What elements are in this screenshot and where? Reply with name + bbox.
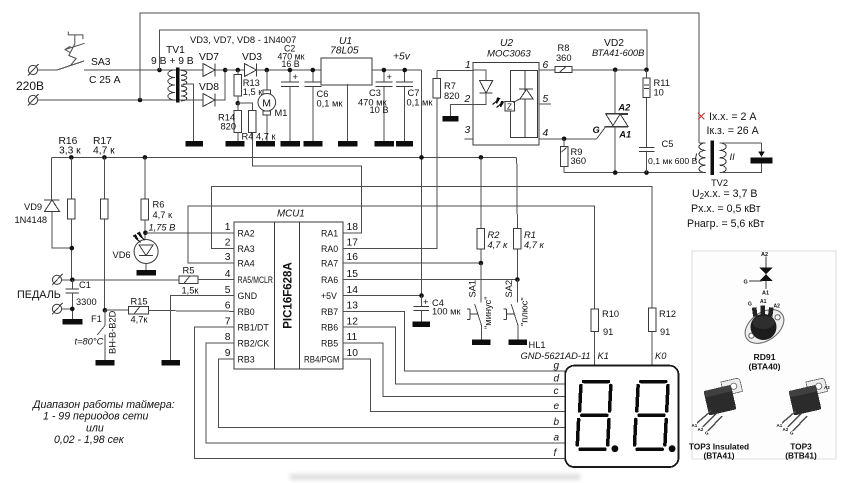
svg-text:4,7 к: 4,7 к — [93, 146, 115, 157]
MCU U3 box — [234, 222, 343, 369]
svg-text:14: 14 — [347, 285, 359, 296]
pin 4 RA5 — [225, 269, 273, 285]
ground SA2 — [509, 340, 528, 346]
svg-text:4,7 к: 4,7 к — [524, 240, 545, 250]
ground C3 — [375, 141, 395, 147]
mains terminal X1 top — [28, 64, 57, 76]
resistor R9 — [560, 139, 567, 173]
svg-text:"плюс": "плюс" — [520, 297, 530, 326]
node rail R2 — [479, 155, 484, 160]
pin 5 GND — [225, 285, 257, 301]
svg-text:Iх.х. = 2 А: Iх.х. = 2 А — [709, 111, 757, 123]
pedal terminal top — [52, 274, 179, 286]
resistor R12 — [648, 308, 656, 365]
pin 9 RB3 — [225, 348, 255, 364]
svg-text:360: 360 — [556, 53, 572, 63]
svg-text:6: 6 — [225, 301, 231, 312]
svg-text:RB1/DT: RB1/DT — [238, 323, 270, 333]
wire U2 pin3 stub — [465, 138, 474, 140]
resistor R6 — [141, 157, 149, 239]
svg-text:R2: R2 — [488, 230, 501, 240]
ground R14 — [226, 141, 245, 147]
ground C4 — [413, 322, 431, 328]
svg-text:RA1: RA1 — [321, 228, 338, 238]
pin 1 RA2 — [225, 222, 255, 238]
diode VD7 — [203, 63, 225, 76]
svg-text:G: G — [748, 302, 752, 308]
resistor R16 — [68, 157, 76, 279]
svg-text:A2: A2 — [783, 427, 789, 432]
svg-text:GND-5621AD-11: GND-5621AD-11 — [521, 351, 591, 361]
svg-text:RB7: RB7 — [321, 307, 338, 317]
transformer TV2 — [699, 141, 726, 176]
svg-text:220В: 220В — [16, 79, 44, 93]
packages info box — [692, 251, 836, 459]
welding electrode bar — [751, 158, 773, 164]
svg-text:Рх.х. = 0,5 кВт: Рх.х. = 0,5 кВт — [691, 203, 761, 215]
phototriac inside U2 — [505, 71, 537, 138]
svg-text:R4: R4 — [242, 132, 254, 142]
pin 12 RB6 — [321, 316, 358, 332]
display digit 2 — [635, 382, 669, 450]
svg-text:VD7: VD7 — [199, 52, 219, 63]
svg-text:RB5: RB5 — [321, 339, 338, 349]
svg-text:RB4/PGM: RB4/PGM — [304, 355, 340, 365]
svg-text:(ВТА41): (ВТА41) — [704, 451, 735, 461]
svg-text:3,3 к: 3,3 к — [59, 146, 81, 157]
svg-text:16 В: 16 В — [282, 59, 300, 69]
svg-text:e: e — [554, 401, 560, 412]
svg-text:(ВТА40): (ВТА40) — [748, 362, 780, 372]
capacitor C5 — [639, 148, 654, 173]
svg-text:4,7к: 4,7к — [131, 315, 149, 325]
svg-text:3: 3 — [225, 252, 231, 263]
wire pin16 RA7 — [343, 262, 481, 264]
svg-text:820: 820 — [221, 122, 237, 132]
node C2 top — [288, 68, 293, 73]
svg-text:3300: 3300 — [76, 297, 97, 307]
svg-text:91: 91 — [660, 327, 670, 337]
node SA1 top — [479, 261, 484, 266]
svg-text:C7: C7 — [408, 88, 420, 98]
wire pin14 +5V to C4 — [343, 295, 422, 297]
svg-text:1,5к: 1,5к — [182, 286, 200, 296]
button SA2 — [503, 280, 518, 340]
svg-text:RB6: RB6 — [321, 323, 338, 333]
svg-text:SA1: SA1 — [468, 280, 478, 298]
resistor R15 — [105, 307, 234, 314]
resistor R13 — [234, 70, 242, 103]
capacitor C7 — [396, 70, 413, 141]
svg-text:K1: K1 — [598, 351, 609, 361]
svg-text:RA2: RA2 — [238, 228, 255, 238]
pin 11 RB5 — [321, 332, 357, 348]
svg-text:R12: R12 — [659, 309, 676, 319]
svg-text:R6: R6 — [153, 200, 165, 210]
node pedal top — [70, 278, 75, 283]
svg-text:Диапазон работы таймера:: Диапазон работы таймера: — [32, 399, 175, 411]
svg-text:U2: U2 — [500, 38, 513, 49]
svg-text:RB0: RB0 — [238, 307, 255, 317]
svg-text:3: 3 — [465, 125, 471, 136]
node mains bottom junction — [138, 98, 143, 103]
svg-text:SA2: SA2 — [504, 280, 514, 298]
ground C2 — [281, 141, 301, 147]
svg-text:или: или — [86, 423, 104, 435]
resistor R8 — [555, 67, 647, 73]
pin 6 RB0 — [225, 301, 255, 317]
svg-text:GND: GND — [238, 291, 258, 301]
package RD91 — [739, 299, 790, 350]
svg-text:1N4148: 1N4148 — [15, 215, 48, 225]
ground VD6 — [137, 270, 157, 276]
svg-text:G: G — [593, 125, 600, 135]
svg-text:12: 12 — [347, 316, 359, 327]
ground M1 — [256, 141, 275, 147]
svg-text:A2: A2 — [698, 427, 704, 432]
svg-text:VD3: VD3 — [242, 52, 262, 63]
svg-text:C6: C6 — [317, 89, 329, 99]
svg-text:Рнагр. = 5,6 кВт: Рнагр. = 5,6 кВт — [687, 218, 765, 230]
svg-text:360: 360 — [571, 156, 587, 166]
wire pin8 to segment a — [206, 343, 565, 443]
svg-text:17: 17 — [347, 238, 359, 249]
wire TV2 secondary to electrode — [720, 143, 765, 173]
node rail +5v riser — [419, 155, 424, 160]
capacitor C3 — [375, 70, 392, 141]
wire pin12 to segment d — [343, 327, 565, 384]
svg-text:2: 2 — [464, 94, 471, 105]
resistor R5 — [179, 276, 234, 283]
svg-text:+: + — [293, 72, 298, 82]
svg-text:G: G — [744, 280, 748, 286]
svg-text:4: 4 — [225, 269, 231, 280]
ground pedal — [63, 319, 83, 325]
capacitor C6 — [304, 70, 321, 141]
display digit 1 — [577, 382, 611, 450]
resistor R4 — [238, 103, 362, 233]
node LED RA2 — [143, 231, 148, 236]
svg-text:1,5 к: 1,5 к — [243, 87, 264, 97]
svg-text:ВТА41-600В: ВТА41-600В — [592, 48, 644, 58]
svg-text:a: a — [554, 432, 560, 443]
node R14 R4 junction — [236, 101, 241, 106]
svg-text:c: c — [554, 386, 559, 397]
LED VD6 — [134, 232, 159, 269]
pin 16 RA7 — [321, 252, 358, 268]
triac VD2 — [605, 70, 628, 173]
svg-text:g: g — [554, 361, 560, 372]
ground C6 — [304, 141, 323, 147]
svg-text:K0: K0 — [655, 351, 667, 361]
wire triac bottom rail — [564, 172, 706, 174]
thermal fuse F1 — [97, 310, 105, 360]
svg-text:RA4: RA4 — [238, 259, 255, 269]
red x mark — [698, 113, 705, 120]
svg-text:91: 91 — [603, 327, 613, 337]
node R9 top — [562, 137, 567, 142]
node rail R16 — [69, 155, 74, 160]
svg-text:d: d — [554, 374, 560, 385]
svg-text:0,1 мк: 0,1 мк — [407, 98, 434, 108]
svg-text:MCU1: MCU1 — [277, 209, 305, 220]
node triac A2 — [613, 68, 618, 73]
svg-text:RB2/CK: RB2/CK — [238, 339, 270, 349]
wire pin13 to segment g — [343, 311, 565, 371]
node C4 — [419, 293, 424, 298]
regulator U1 78L05 — [321, 58, 422, 141]
svg-text:4: 4 — [543, 128, 549, 139]
svg-text:R15: R15 — [131, 297, 148, 307]
svg-text:I: I — [695, 152, 698, 162]
diode VD9 — [44, 157, 72, 248]
svg-text:HL1: HL1 — [529, 340, 546, 350]
svg-text:7: 7 — [225, 316, 231, 327]
svg-text:10 В: 10 В — [370, 105, 389, 115]
svg-text:10: 10 — [654, 88, 664, 98]
diode VD3 — [244, 63, 321, 76]
svg-text:TV1: TV1 — [166, 45, 185, 56]
node R17 R15 F1 — [103, 308, 108, 313]
svg-text:+: + — [423, 297, 428, 307]
resistor R1 — [514, 157, 522, 279]
resistor R17 — [101, 157, 109, 310]
svg-text:RA5/MCLR: RA5/MCLR — [238, 275, 274, 285]
wire node to pin1 RA2 — [145, 232, 234, 234]
wire +5v riser — [421, 70, 423, 296]
svg-text:R1: R1 — [524, 230, 536, 240]
ground TV1 center tap — [186, 141, 204, 147]
wire pin11 to segment c — [343, 343, 565, 396]
wire pin7 to segment f — [194, 327, 565, 458]
resistor R14 — [234, 103, 242, 141]
svg-text:VD6: VD6 — [113, 250, 131, 260]
svg-text:F1: F1 — [91, 314, 102, 324]
ground U1 — [338, 141, 358, 147]
wire mains bottom — [38, 99, 203, 101]
capacitor C4 — [413, 296, 429, 322]
svg-text:М: М — [262, 97, 271, 109]
svg-text:820: 820 — [444, 91, 460, 101]
svg-text:16: 16 — [347, 252, 359, 263]
svg-text:+: + — [387, 72, 392, 82]
svg-text:13: 13 — [347, 301, 359, 312]
pin 13 RB7 — [321, 301, 358, 317]
wire pin9 to segment b — [219, 359, 566, 427]
node SA2 top — [515, 277, 520, 282]
button SA1 — [467, 263, 482, 340]
pedal terminal bottom — [52, 303, 72, 315]
svg-text:R11: R11 — [654, 78, 670, 88]
pin 14 +5V — [321, 285, 358, 301]
svg-text:G: G — [705, 431, 709, 436]
svg-text:Z: Z — [507, 103, 512, 112]
svg-text:5: 5 — [225, 285, 231, 296]
wire riser to rail 2 — [160, 30, 648, 70]
svg-text:RB3: RB3 — [238, 355, 255, 365]
package TOP3 — [777, 378, 832, 436]
svg-text:2: 2 — [225, 238, 231, 249]
ground MCU — [162, 360, 181, 366]
display HL1 box — [565, 366, 678, 467]
svg-text:Iк.з. = 26 А: Iк.з. = 26 А — [707, 125, 760, 137]
node rail R17 — [102, 155, 107, 160]
svg-text:II: II — [730, 152, 736, 162]
svg-text:1: 1 — [225, 222, 231, 233]
ground F1 — [96, 360, 115, 366]
capacitor C1 — [66, 280, 79, 319]
svg-text:0,02 - 1,98 сек: 0,02 - 1,98 сек — [54, 434, 125, 446]
svg-text:4,7 к: 4,7 к — [488, 240, 509, 250]
pin 18 RA1 — [321, 222, 358, 238]
mains terminal X2 bottom — [28, 94, 39, 106]
svg-text:RA7: RA7 — [321, 259, 338, 269]
svg-text:RA6: RA6 — [321, 275, 338, 285]
wire U2 pin4 to gate — [539, 127, 606, 139]
pin 2 RA3 — [225, 238, 255, 254]
svg-text:ПЕДАЛЬ: ПЕДАЛЬ — [17, 289, 61, 301]
svg-text:MOC3063: MOC3063 — [487, 49, 531, 60]
optocoupler U2 MOC3063 — [473, 63, 539, 145]
svg-text:78L05: 78L05 — [330, 46, 359, 57]
wire pin10 to segment e — [343, 359, 565, 412]
wire U2 pin2 to ground — [451, 105, 473, 116]
svg-text:A2: A2 — [824, 385, 830, 390]
svg-text:R10: R10 — [602, 309, 619, 319]
pin 15 RA6 — [321, 269, 358, 285]
svg-text:8: 8 — [225, 332, 231, 343]
wire mains top to TV1 — [84, 69, 203, 71]
svg-text:18: 18 — [347, 222, 359, 233]
svg-text:15: 15 — [347, 269, 359, 280]
ground SA1 — [472, 340, 491, 346]
wire rectifier to VD3 — [225, 69, 244, 71]
wire pin3 RA4 to R10 — [188, 206, 595, 309]
svg-text:R8: R8 — [558, 43, 570, 53]
node mains top junction — [157, 68, 162, 73]
svg-text:4,7 к: 4,7 к — [256, 132, 277, 142]
svg-text:t=80°C: t=80°C — [75, 337, 104, 347]
LED inside U2 — [473, 70, 504, 108]
svg-text:ВН-В-В2D: ВН-В-В2D — [108, 310, 118, 354]
diode VD8 — [181, 70, 225, 107]
svg-text:VD8: VD8 — [199, 82, 219, 93]
svg-text:RD91: RD91 — [754, 352, 776, 362]
svg-text:A1: A1 — [760, 299, 767, 305]
svg-text:C5: C5 — [662, 139, 674, 149]
svg-text:0,1 мк: 0,1 мк — [317, 99, 344, 109]
wire U2 pin6 to R8 — [539, 69, 555, 71]
display dp 1 — [612, 445, 619, 452]
pin 8 RB2 — [225, 332, 270, 348]
svg-text:9 В + 9 В: 9 В + 9 В — [151, 56, 194, 67]
ground C7 — [396, 141, 413, 147]
svg-text:R7: R7 — [444, 81, 456, 91]
node triac A1 bottom — [613, 170, 618, 175]
svg-text:5: 5 — [543, 94, 549, 105]
svg-text:VD3, VD7, VD8 - 1N4007: VD3, VD7, VD8 - 1N4007 — [190, 34, 296, 45]
svg-text:(ВТВ41): (ВТВ41) — [785, 451, 817, 461]
triac symbol in box — [744, 252, 774, 297]
resistor R10 — [591, 309, 599, 365]
svg-text:+5V: +5V — [321, 291, 337, 301]
pin 17 RA0 — [321, 238, 358, 254]
node C6 top — [311, 68, 316, 73]
wire U2 pin5 stub — [539, 103, 551, 105]
svg-text:A2: A2 — [761, 252, 768, 258]
svg-text:PIC16F628A: PIC16F628A — [283, 262, 295, 328]
resistor R2 — [477, 157, 485, 263]
svg-text:1: 1 — [465, 60, 471, 71]
node VD9 R16 junction — [70, 246, 75, 251]
resistor R7 — [343, 70, 473, 248]
pin 7 RB1 — [225, 316, 270, 332]
svg-text:b: b — [554, 417, 560, 428]
wire riser to rail 1 — [140, 13, 699, 143]
svg-text:SA3: SA3 — [91, 57, 111, 68]
svg-text:G: G — [790, 431, 794, 436]
svg-text:RA0: RA0 — [321, 244, 338, 254]
motor M1 — [258, 70, 276, 141]
wire pin15 RA6 — [343, 279, 517, 281]
svg-text:С 25 А: С 25 А — [89, 75, 121, 86]
node rail R6 — [143, 155, 148, 160]
svg-text:100 мк: 100 мк — [432, 307, 461, 317]
node C5 bottom — [644, 170, 649, 175]
svg-text:11: 11 — [347, 332, 358, 343]
svg-text:10: 10 — [347, 348, 359, 359]
node R13 top — [236, 68, 241, 73]
pin 10 RB4 — [304, 348, 358, 364]
switch SA3 — [57, 32, 85, 71]
svg-text:1,75 В: 1,75 В — [149, 223, 176, 233]
display dp 2 — [669, 445, 676, 452]
svg-text:A2: A2 — [617, 103, 631, 113]
pin 3 RA4 — [225, 252, 255, 268]
node R11 top — [644, 68, 649, 73]
svg-text:VD9: VD9 — [24, 202, 42, 212]
svg-text:"минус": "минус" — [483, 296, 493, 329]
svg-text:A2: A2 — [774, 304, 781, 310]
svg-text:M1: M1 — [275, 108, 288, 118]
svg-text:C1: C1 — [79, 280, 91, 290]
wire GND pin5 — [171, 296, 234, 360]
node C7 top — [402, 68, 407, 73]
svg-text:A1: A1 — [618, 130, 631, 140]
svg-text:TV2: TV2 — [711, 178, 728, 188]
node M1 branch — [265, 68, 270, 73]
package TOP3 insulated — [692, 378, 747, 436]
wire TV1 center tap to ground — [183, 84, 194, 141]
node rectifier output — [223, 68, 228, 73]
ground U2 pin2 — [443, 116, 459, 122]
svg-text:R5: R5 — [183, 266, 195, 276]
resistor R11 — [643, 70, 650, 148]
transformer TV1 — [168, 68, 187, 103]
svg-text:RA3: RA3 — [238, 244, 255, 254]
wire +5V rail — [51, 156, 516, 158]
wire pin2 RA3 to R12 — [212, 187, 653, 309]
svg-text:1 - 99 периодов сети: 1 - 99 периодов сети — [43, 411, 149, 423]
node C3 top — [382, 68, 387, 73]
svg-text:C3: C3 — [369, 88, 381, 98]
svg-text:9: 9 — [225, 348, 231, 359]
faint watermark band — [290, 474, 580, 480]
node pedal bottom — [70, 307, 75, 312]
svg-text:+5v: +5v — [393, 52, 411, 63]
svg-text:4,7 к: 4,7 к — [153, 210, 174, 220]
svg-text:0,1 мк 600 В: 0,1 мк 600 В — [648, 156, 698, 166]
